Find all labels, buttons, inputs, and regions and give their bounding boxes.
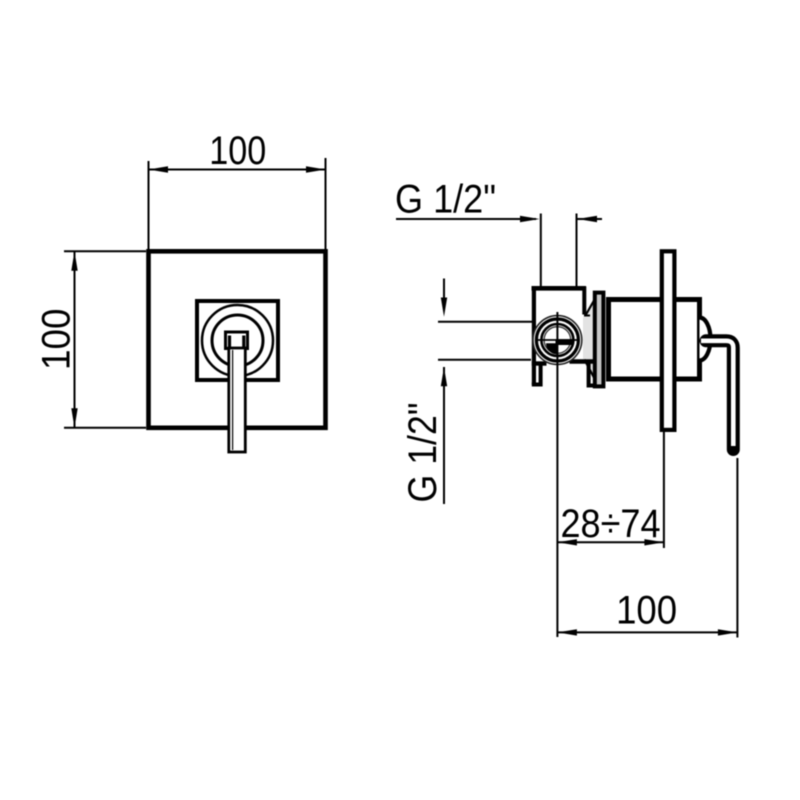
svg-text:100: 100 [616,589,677,633]
svg-text:G 1/2": G 1/2" [401,403,445,503]
svg-text:G 1/2": G 1/2" [395,178,496,222]
svg-text:100: 100 [209,129,266,173]
svg-text:100: 100 [35,308,79,370]
svg-text:28÷74: 28÷74 [561,502,661,546]
